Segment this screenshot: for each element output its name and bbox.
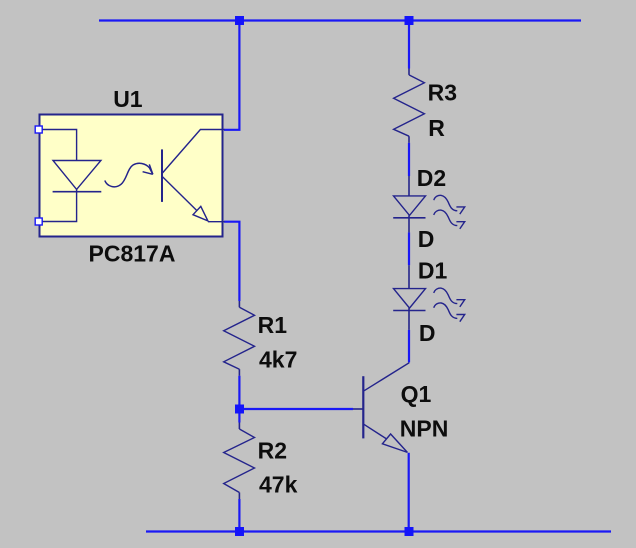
wire Q1 emitter to bottom rail <box>408 453 410 532</box>
wire top rail to U1 collector pin <box>224 21 239 130</box>
wire U1 emitter pin down to R1 <box>224 222 239 301</box>
wire top rail to R3 <box>408 21 410 69</box>
U1 internal LED anode lead <box>39 130 77 161</box>
U1 phototransistor base bar <box>161 149 163 202</box>
resistor R2 <box>224 423 255 500</box>
svg-text:D: D <box>418 226 435 252</box>
svg-text:U1: U1 <box>113 86 143 112</box>
U1 pin 1 (anode) terminal <box>35 126 42 133</box>
junction node R1/R2/Q1 base <box>235 405 244 414</box>
svg-text:PC817A: PC817A <box>89 241 176 267</box>
wire D1 to Q1 collector <box>408 330 410 362</box>
junction node at bottom rail / R2 branch <box>235 527 244 536</box>
wire D2 to D1 <box>408 232 410 265</box>
LED D2 <box>393 176 465 232</box>
svg-text:D2: D2 <box>417 165 446 191</box>
U1 phototransistor emitter <box>162 176 197 210</box>
junction node at top rail / R3 branch <box>405 16 414 25</box>
junction node at top rail / U1 branch <box>235 16 244 25</box>
LED D1 <box>393 265 465 330</box>
svg-text:NPN: NPN <box>400 415 449 441</box>
optocoupler U1 body <box>40 115 223 237</box>
svg-text:R3: R3 <box>428 80 457 106</box>
svg-text:D: D <box>419 320 436 346</box>
junction node at bottom rail / Q1 emitter <box>405 527 414 536</box>
U1 internal LED triangle <box>53 161 101 190</box>
wire bottom ground rail <box>146 530 611 532</box>
wire node to R2 <box>238 409 240 423</box>
U1 internal LED cathode bar <box>53 191 102 193</box>
wire node to Q1 base <box>239 408 353 410</box>
wire top power rail <box>99 19 581 21</box>
U1 phototransistor emitter lead <box>208 221 225 223</box>
resistor R3 <box>394 69 425 143</box>
wire R3 to LED D2 <box>408 143 410 176</box>
wire R2 to bottom rail <box>238 499 240 532</box>
svg-text:4k7: 4k7 <box>259 347 297 373</box>
U1 phototransistor collector <box>162 130 225 174</box>
svg-text:R: R <box>428 115 445 141</box>
U1 phototransistor emitter arrowhead <box>193 206 208 221</box>
svg-text:R1: R1 <box>258 312 288 338</box>
svg-text:Q1: Q1 <box>401 381 432 407</box>
svg-text:47k: 47k <box>259 472 298 498</box>
wire R1 to node <box>238 376 240 409</box>
svg-text:D1: D1 <box>418 257 448 283</box>
U1 pin 2 (cathode) terminal <box>35 218 42 225</box>
svg-text:R2: R2 <box>258 438 287 464</box>
U1 light coupling arrow <box>105 163 153 187</box>
resistor R1 <box>224 301 255 376</box>
U1 internal LED cathode lead <box>39 189 77 221</box>
transistor Q1 <box>353 362 409 452</box>
